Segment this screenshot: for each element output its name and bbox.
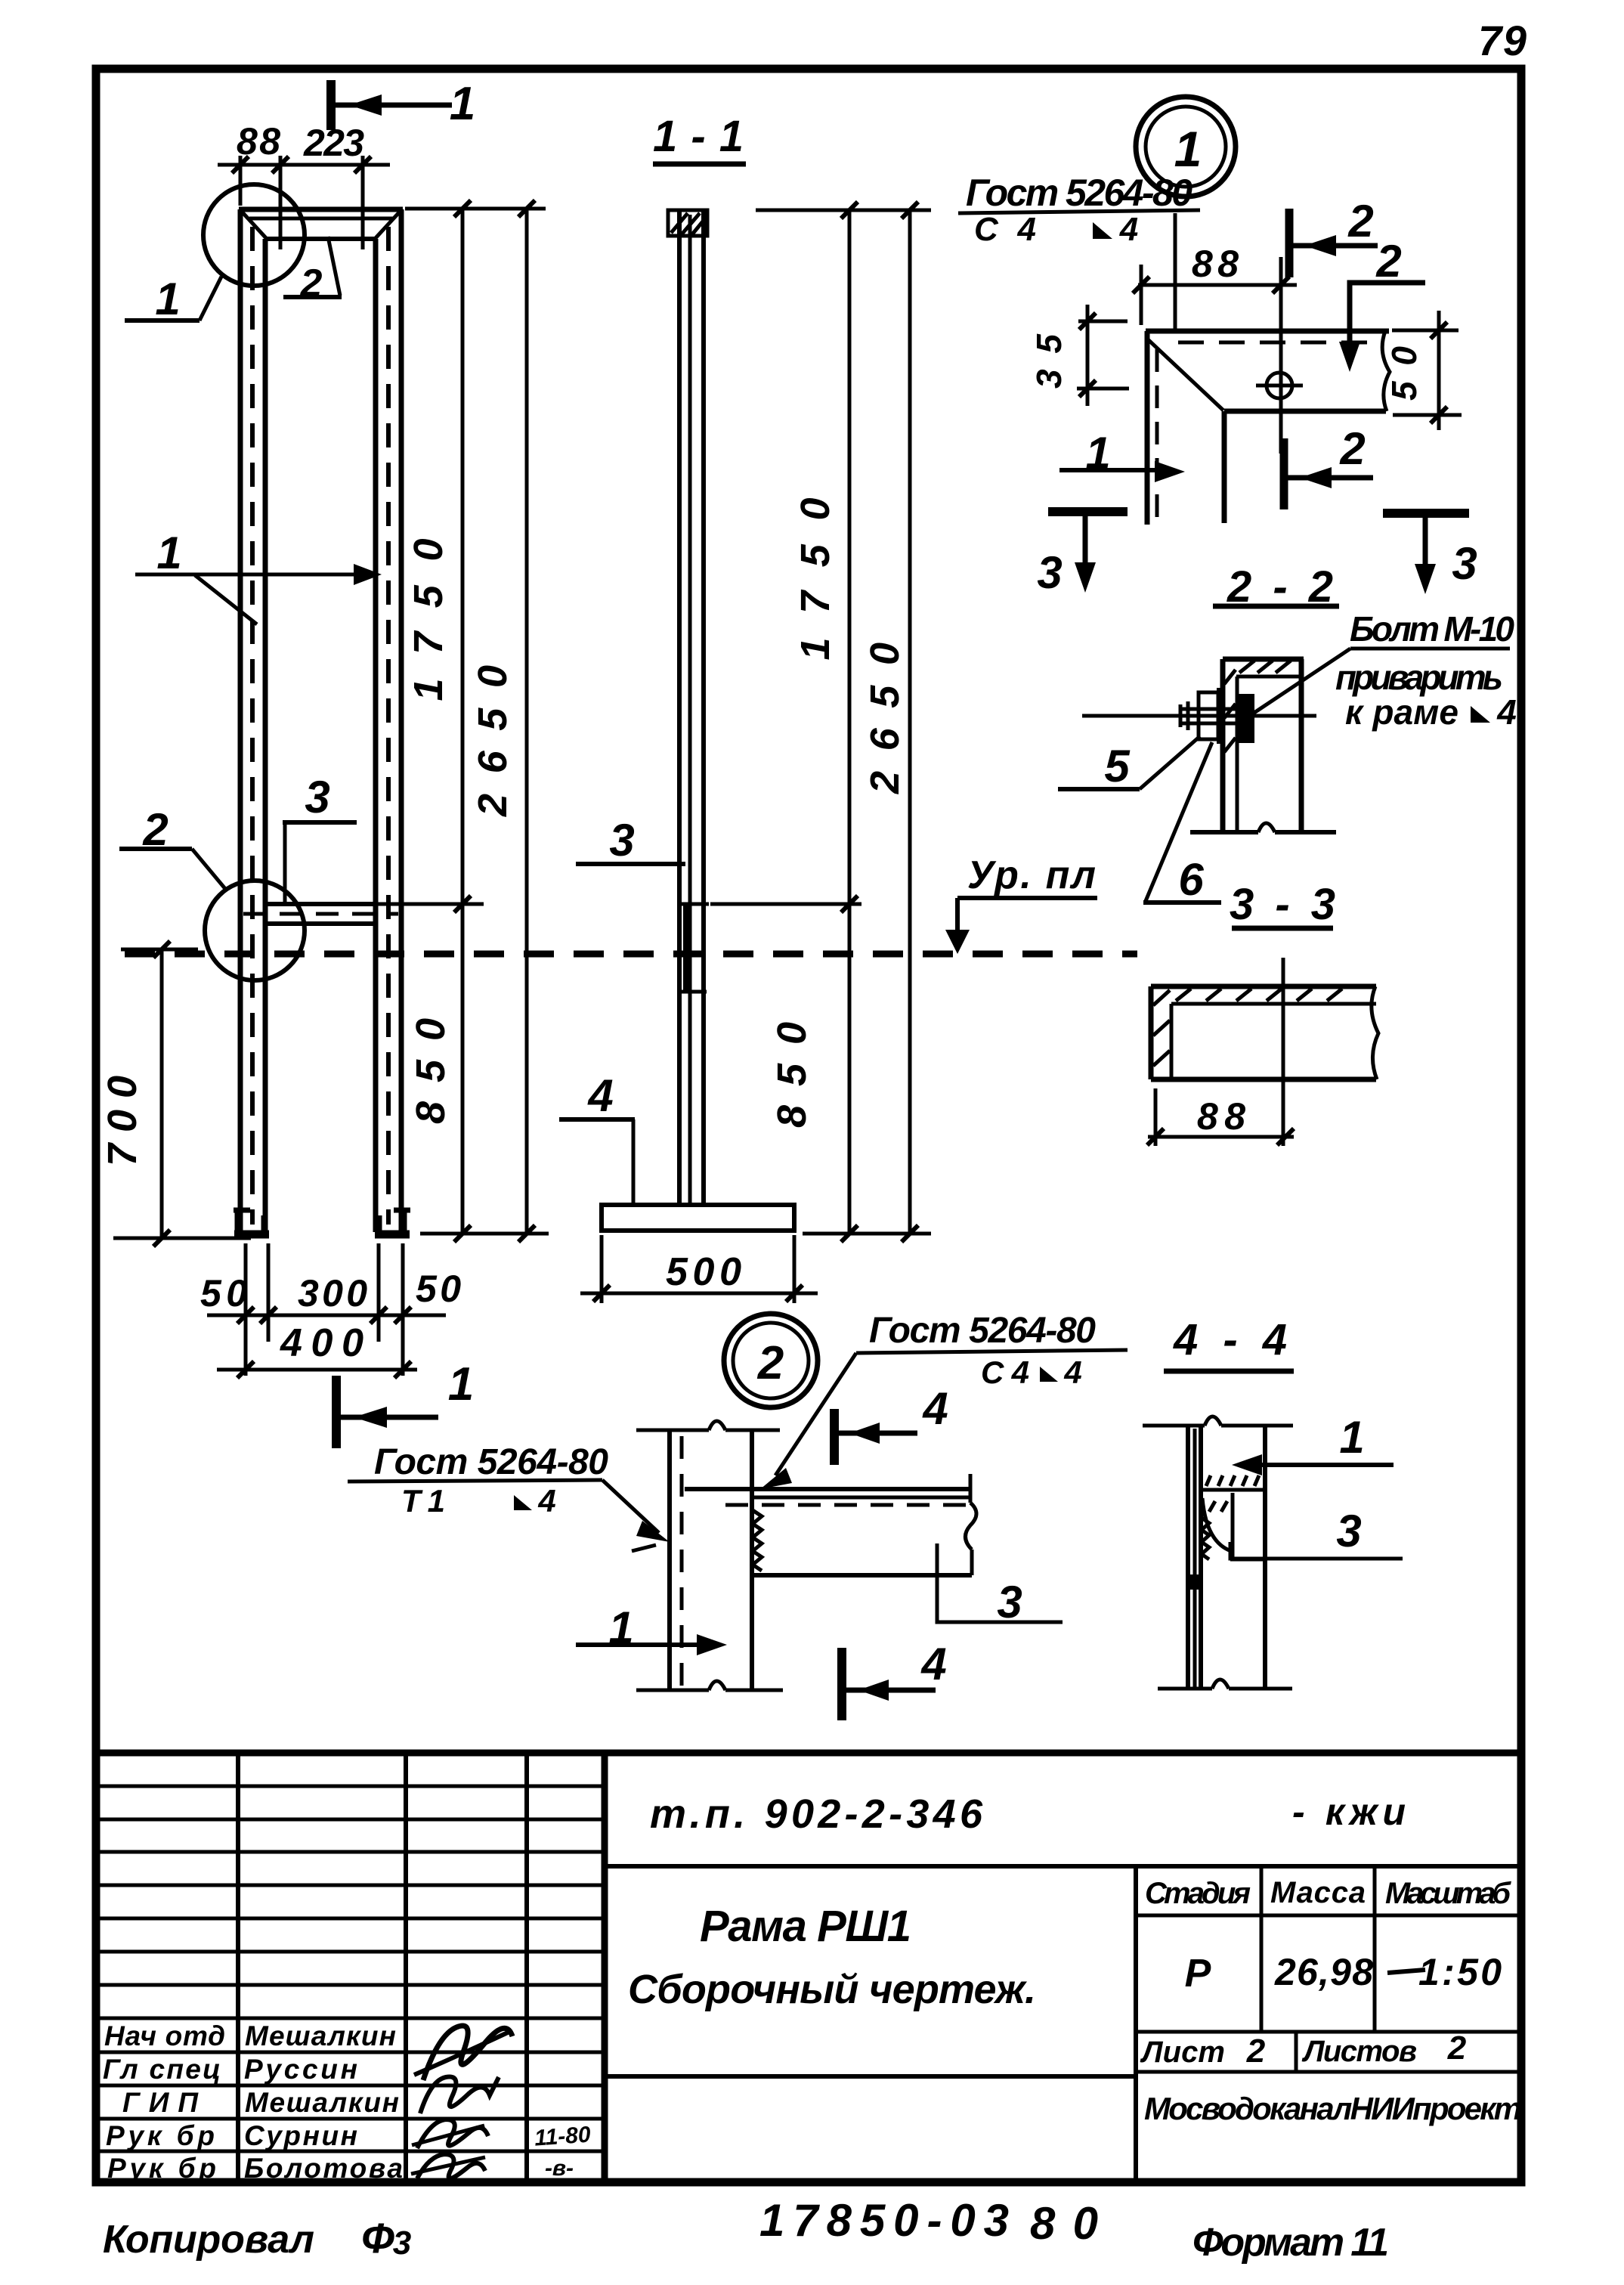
svg-text:79: 79 — [1478, 17, 1527, 64]
svg-text:300: 300 — [298, 1272, 367, 1314]
section flag 1 bottom — [336, 1358, 474, 1448]
title 3-3 — [1230, 880, 1335, 929]
svg-text:1: 1 — [448, 1358, 474, 1410]
svg-text:11-80: 11-80 — [534, 2122, 592, 2150]
label 1 with arrow into detail — [1059, 428, 1185, 482]
svg-text:1: 1 — [1174, 121, 1202, 177]
detail 2 drawing: post with bar weld — [636, 1421, 976, 1690]
svg-text:Стадия: Стадия — [1145, 1877, 1251, 1910]
svg-text:Лист: Лист — [1140, 2036, 1225, 2069]
right post — [376, 209, 401, 1237]
weld note GOST 5264-80 S4 — [958, 172, 1200, 333]
svg-text:1-1: 1-1 — [653, 112, 744, 161]
dim 88 / 223 top — [218, 120, 390, 249]
svg-text:1750: 1750 — [406, 539, 451, 701]
dim 88 of 3-3 — [1147, 958, 1294, 1146]
svg-text:Болт М-10: Болт М-10 — [1350, 609, 1514, 649]
svg-text:500: 500 — [666, 1250, 741, 1294]
svg-text:4: 4 — [1496, 692, 1517, 732]
svg-text:88: 88 — [1197, 1095, 1245, 1138]
svg-text:Гост 5264-80: Гост 5264-80 — [869, 1311, 1096, 1351]
svg-text:- кжи: - кжи — [1292, 1791, 1406, 1833]
svg-text:3-3: 3-3 — [1230, 880, 1335, 929]
label 2 with leader to detail circle 2 — [119, 804, 226, 890]
svg-text:Сурнин: Сурнин — [244, 2120, 357, 2151]
left post — [240, 209, 265, 1237]
bolt M10 — [1082, 688, 1316, 744]
weld note GOST 5264-80 T1 (detail 2 left) — [348, 1442, 670, 1551]
svg-text:35: 35 — [1029, 333, 1069, 389]
svg-text:4: 4 — [587, 1070, 613, 1121]
frame top beam — [239, 209, 403, 239]
svg-text:Р: Р — [1185, 1952, 1211, 1996]
svg-text:Руссин: Руссин — [244, 2054, 357, 2085]
section flag 4 bottom — [842, 1639, 947, 1720]
4-4 drawing — [1143, 1417, 1293, 1689]
left foot — [234, 1208, 269, 1235]
svg-text:3: 3 — [305, 772, 329, 822]
title 4-4 — [1164, 1315, 1294, 1371]
label 3 (4-4) — [1230, 1506, 1403, 1559]
label 1 mid left, leader to both posts — [135, 528, 382, 624]
label 3 with leader to bar — [283, 772, 357, 906]
right dim lines of front view — [378, 200, 549, 1310]
svg-text:3: 3 — [997, 1577, 1022, 1627]
svg-text:4: 4 — [537, 1483, 555, 1519]
svg-text:26,98: 26,98 — [1274, 1951, 1373, 1993]
svg-text:С4: С4 — [981, 1355, 1029, 1390]
svg-text:2: 2 — [1339, 423, 1365, 474]
svg-text:Гост 5264-80: Гост 5264-80 — [374, 1442, 608, 1482]
svg-text:Ф: Ф — [361, 2214, 394, 2262]
svg-text:к раме: к раме — [1345, 692, 1459, 732]
section flag 3 left — [1037, 512, 1128, 598]
svg-text:1: 1 — [155, 274, 180, 324]
svg-text:Копировал: Копировал — [103, 2218, 314, 2262]
svg-text:С 4: С 4 — [974, 211, 1036, 248]
svg-text:400: 400 — [280, 1321, 363, 1365]
svg-text:Ур. пл: Ур. пл — [967, 853, 1096, 897]
cross bar item 3 — [243, 904, 398, 924]
dim 500 under plate — [580, 1235, 818, 1303]
svg-text:1750: 1750 — [793, 498, 838, 661]
hatched cap at post top — [668, 210, 707, 236]
svg-text:Формат 11: Формат 11 — [1192, 2221, 1389, 2265]
base plate item 4 — [602, 1205, 794, 1231]
svg-text:Гост 5264-80: Гост 5264-80 — [966, 172, 1192, 214]
channel in section with bolt — [1190, 659, 1336, 832]
svg-text:50: 50 — [416, 1268, 461, 1310]
label 6 leader — [1143, 742, 1221, 905]
note bolt M-10 — [1248, 609, 1517, 732]
svg-text:3: 3 — [1336, 1506, 1361, 1556]
label 1 (4-4) — [1232, 1412, 1394, 1475]
svg-text:88: 88 — [1192, 243, 1239, 285]
label 1 (detail 2) — [576, 1602, 727, 1655]
svg-text:Рама РШ1: Рама РШ1 — [700, 1902, 911, 1951]
svg-text:2650: 2650 — [862, 642, 908, 794]
svg-text:1: 1 — [1339, 1412, 1364, 1463]
label 3 (detail 2) — [937, 1543, 1063, 1627]
svg-text:2650: 2650 — [470, 665, 515, 817]
weld note GOST 5264-80 S4 (detail 2) — [760, 1311, 1128, 1489]
svg-text:МосводоканалНИИпроект: МосводоканалНИИпроект — [1144, 2091, 1522, 2126]
svg-text:17850-03: 17850-03 — [759, 2195, 1009, 2246]
dim 35 of detail — [1029, 305, 1129, 406]
svg-text:2: 2 — [1246, 2033, 1266, 2070]
label 4 leader — [559, 1070, 635, 1203]
post in section — [679, 212, 704, 1205]
bar seen edgewise behind post — [682, 904, 709, 992]
detail circle mark 2 — [724, 1314, 818, 1407]
section flag 2 top — [1289, 196, 1378, 277]
svg-text:2: 2 — [1447, 2030, 1467, 2067]
svg-text:5: 5 — [1104, 741, 1131, 791]
leader label 1 of detail circle — [125, 274, 221, 324]
right foot — [375, 1208, 410, 1235]
svg-text:3: 3 — [393, 2225, 411, 2262]
svg-text:Гл спец: Гл спец — [103, 2054, 221, 2085]
svg-text:приварить: приварить — [1335, 658, 1503, 697]
svg-text:Сборочный чертеж.: Сборочный чертеж. — [628, 1967, 1036, 2012]
section flag 2 right (bent) — [1339, 236, 1425, 372]
svg-text:3: 3 — [609, 815, 634, 865]
corner detail drawing — [1146, 257, 1390, 525]
svg-text:-в-: -в- — [545, 2156, 574, 2181]
svg-text:Рук бр: Рук бр — [107, 2153, 216, 2184]
svg-text:2: 2 — [757, 1337, 784, 1389]
svg-text:Т1: Т1 — [401, 1483, 445, 1519]
dim lines of 1-1 — [710, 202, 931, 1242]
svg-text:700: 700 — [100, 1076, 145, 1166]
svg-text:3: 3 — [1452, 538, 1477, 589]
svg-text:223: 223 — [303, 122, 364, 164]
svg-text:т.п. 902-2-346: т.п. 902-2-346 — [650, 1791, 983, 1837]
label 2 top with leader — [283, 237, 342, 305]
section flag 3 right — [1383, 513, 1477, 594]
signatures — [411, 2026, 592, 2181]
svg-text:Мешалкин: Мешалкин — [245, 2087, 399, 2118]
detail circle 2 on bar joint — [205, 881, 305, 980]
section flag 1 top — [331, 78, 475, 130]
section flag 4 top — [834, 1383, 948, 1465]
svg-text:3: 3 — [1037, 547, 1062, 598]
svg-text:850: 850 — [408, 1018, 453, 1124]
svg-text:2: 2 — [1347, 196, 1373, 246]
svg-text:1: 1 — [450, 78, 475, 130]
dim 700 left — [100, 941, 251, 1246]
svg-text:4: 4 — [920, 1639, 946, 1689]
svg-text:Нач отд: Нач отд — [104, 2020, 225, 2051]
title 2-2 — [1213, 562, 1339, 612]
svg-text:Болотова: Болотова — [244, 2153, 403, 2184]
svg-text:1:50: 1:50 — [1418, 1951, 1502, 1993]
svg-text:Рук бр: Рук бр — [106, 2120, 215, 2151]
svg-text:4: 4 — [1119, 211, 1138, 248]
detail circle 1 on top corner — [203, 184, 305, 286]
svg-text:4-4: 4-4 — [1173, 1315, 1287, 1364]
detail circle mark 1 — [1136, 97, 1236, 197]
svg-text:80: 80 — [1030, 2198, 1098, 2249]
view title 1-1 — [653, 112, 746, 164]
svg-text:Мешалкин: Мешалкин — [245, 2020, 396, 2051]
svg-text:6: 6 — [1178, 854, 1204, 905]
bottom dims 50 300 50 / 400 — [200, 1243, 446, 1378]
svg-text:ГИП: ГИП — [122, 2087, 199, 2118]
level mark Ur.pl — [945, 853, 1097, 954]
table outline and lines — [96, 1753, 1521, 2182]
section flag 2 bottom — [1284, 423, 1373, 509]
svg-text:Масса: Масса — [1270, 1876, 1366, 1909]
svg-text:4: 4 — [1063, 1355, 1081, 1390]
channel section drawing — [1151, 986, 1378, 1079]
label 5 leader — [1058, 736, 1200, 791]
dim 50 of detail — [1384, 311, 1462, 430]
svg-text:1: 1 — [156, 528, 181, 578]
svg-text:850: 850 — [769, 1022, 815, 1128]
svg-text:2: 2 — [1375, 236, 1401, 286]
svg-text:4: 4 — [922, 1383, 948, 1434]
title block texts — [103, 1791, 1522, 2184]
dim 88 of detail — [1133, 243, 1297, 325]
svg-text:88: 88 — [237, 120, 280, 163]
ground level line dashed — [125, 951, 1137, 958]
svg-text:50: 50 — [200, 1272, 247, 1314]
svg-text:Листов: Листов — [1301, 2035, 1417, 2068]
label 3 leader — [576, 815, 685, 865]
svg-text:Масштаб: Масштаб — [1385, 1877, 1511, 1910]
